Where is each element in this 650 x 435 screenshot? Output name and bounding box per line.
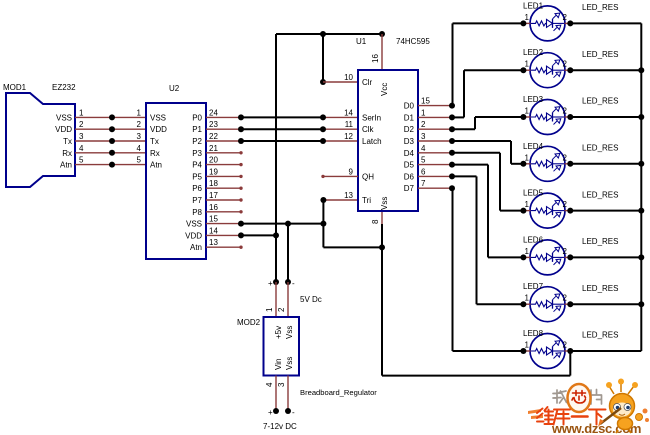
svg-text:LED2: LED2 — [523, 48, 544, 57]
svg-text:Atn: Atn — [150, 161, 162, 170]
IC U2 body — [146, 84, 206, 259]
svg-text:2: 2 — [563, 107, 568, 116]
svg-text:4: 4 — [137, 144, 142, 153]
U2 left pin name Atn — [150, 161, 162, 170]
svg-text:3: 3 — [79, 132, 84, 141]
svg-text:Tx: Tx — [150, 137, 159, 146]
svg-text:1: 1 — [525, 294, 530, 303]
wire LED4 to cathode bus — [570, 163, 641, 165]
node 7-12v input - — [285, 408, 295, 417]
svg-text:5: 5 — [79, 156, 84, 165]
wire MOD1 pin 4 to U2 pin 4 (Rx) — [75, 144, 146, 153]
wire P0 to U1 SerIn — [238, 114, 358, 120]
svg-text:Tri: Tri — [362, 196, 371, 205]
svg-text:D3: D3 — [404, 137, 415, 146]
svg-text:SerIn: SerIn — [362, 113, 381, 122]
svg-text:D4: D4 — [404, 149, 415, 158]
U2 left pin name Tx — [150, 137, 159, 146]
wire P2 to U1 Latch — [238, 138, 358, 144]
svg-text:P3: P3 — [192, 149, 202, 158]
svg-text:4: 4 — [421, 144, 426, 153]
svg-text:16: 16 — [371, 54, 380, 63]
open pin end dot Atn — [239, 246, 242, 249]
MOD1 pin name Tx — [63, 137, 72, 146]
svg-text:Clk: Clk — [362, 125, 375, 134]
LED5 (LED_RES) symbol — [530, 193, 565, 228]
LED7 pin 2 — [563, 294, 574, 308]
stub MOD2 pin 2 (Vss) — [287, 282, 289, 317]
svg-text:3: 3 — [137, 132, 142, 141]
junction dot on Atn wire — [109, 162, 115, 168]
svg-text:P0: P0 — [192, 113, 202, 122]
svg-text:Vss: Vss — [285, 357, 294, 370]
U1 right pin 4 (D4) stub — [404, 144, 455, 158]
svg-text:1: 1 — [525, 13, 530, 22]
svg-text:LED1: LED1 — [523, 1, 544, 10]
svg-text:74HC595: 74HC595 — [396, 37, 430, 46]
MOD2 pin number 3 (rotated) — [277, 382, 286, 387]
wire +5V vertical rail x=276 — [275, 34, 277, 282]
svg-text:7-12v DC: 7-12v DC — [263, 422, 297, 431]
stub U1 Vcc pin 16 — [381, 34, 383, 70]
MOD2 pin number 4 (rotated) — [265, 382, 274, 387]
U1 right pin 15 (D0) stub — [404, 97, 455, 111]
wire D2 to LED3 — [452, 117, 523, 129]
U1 Vss label (rotated) — [380, 197, 389, 210]
svg-text:P6: P6 — [192, 184, 202, 193]
LED6 labels — [523, 235, 618, 246]
svg-text:VDD: VDD — [150, 125, 167, 134]
svg-text:5: 5 — [137, 156, 142, 165]
open pin end dot P5 — [239, 175, 242, 178]
MOD2 pin name Vin (rotated) — [274, 359, 283, 370]
wire LED cathode bus vertical — [638, 23, 644, 351]
LED2 (LED_RES) symbol — [530, 53, 565, 88]
U2 left pin name Rx — [150, 149, 160, 158]
U1 right pin 2 (D2) stub — [404, 120, 455, 134]
wire D1 to LED2 — [452, 70, 523, 117]
LED3 pin 2 — [563, 107, 574, 121]
svg-text:15: 15 — [421, 97, 430, 106]
connector MOD1 EZ232 body — [3, 83, 76, 187]
svg-text:Atn: Atn — [60, 161, 72, 170]
svg-text:LED7: LED7 — [523, 282, 544, 291]
wire D5 to LED6 — [452, 165, 523, 258]
U1 left pin 13 (Tri) name/number — [344, 191, 371, 205]
label Breadboard_Regulator — [300, 388, 377, 397]
svg-text:2: 2 — [79, 120, 84, 129]
U2 right pin 20 (P4) stub — [192, 156, 241, 170]
svg-text:VSS: VSS — [186, 220, 202, 229]
svg-text:LED_RES: LED_RES — [582, 3, 618, 12]
svg-text:4: 4 — [79, 144, 84, 153]
U1 right pin 6 (D6) stub — [404, 167, 455, 181]
LED1 labels — [523, 1, 618, 12]
LED8 pin 2 — [563, 341, 574, 355]
svg-text:3: 3 — [421, 132, 426, 141]
wire D3 to LED4 — [452, 141, 523, 164]
wire LED3 to cathode bus — [570, 116, 641, 118]
U2 right pin 17 (P7) stub — [192, 191, 241, 205]
stub U1 Tri pin 13 — [320, 197, 358, 203]
svg-text:VDD: VDD — [55, 125, 72, 134]
stub MOD2 pin 4 (Vin) — [275, 376, 277, 412]
label 5V Dc — [300, 295, 322, 304]
U2 right pin 24 (P0) stub — [192, 108, 241, 122]
regulator MOD2 body — [237, 317, 299, 376]
LED8 labels — [523, 329, 618, 340]
junction dot on VSS wire — [109, 114, 115, 120]
junction dot on VDD wire — [109, 126, 115, 132]
svg-text:8: 8 — [371, 219, 380, 224]
MOD1 pin name VSS — [56, 113, 72, 122]
U1 right pin 5 (D5) stub — [404, 156, 455, 170]
svg-text:2: 2 — [563, 60, 568, 69]
wire LED5 to cathode bus — [570, 210, 641, 212]
U1 left pin 10 (Clr) name/number — [344, 73, 372, 87]
MOD2 pin name Vss bottom (rotated) — [285, 357, 294, 370]
MOD2 pin name +5v (rotated) — [274, 326, 283, 339]
U1 right pin 3 (D3) stub — [404, 132, 455, 146]
svg-text:14: 14 — [209, 226, 218, 235]
svg-text:QH: QH — [362, 172, 374, 181]
svg-text:EZ232: EZ232 — [52, 83, 76, 92]
svg-text:P5: P5 — [192, 172, 202, 181]
svg-text:14: 14 — [344, 108, 353, 117]
MOD2 pin name Vss top (rotated) — [285, 326, 294, 339]
label 7-12v DC — [263, 422, 297, 431]
U2 right pin 22 (P2) stub — [192, 132, 241, 146]
svg-text:Vin: Vin — [274, 359, 283, 370]
U2 right pin 21 (P3) stub — [192, 144, 241, 158]
U2 right pin 16 (P8) stub — [192, 203, 241, 217]
wire D4 to LED5 — [452, 153, 523, 211]
svg-text:LED3: LED3 — [523, 95, 544, 104]
stub MOD2 pin 3 (Vss) — [287, 376, 289, 412]
wire LED6 to cathode bus — [570, 256, 641, 258]
IC U1 74HC595 body — [356, 37, 430, 211]
svg-text:Rx: Rx — [62, 149, 72, 158]
svg-text:Vss: Vss — [380, 197, 389, 210]
U1 Vcc label (rotated) — [380, 83, 389, 96]
LED7 labels — [523, 282, 618, 293]
svg-text:5V Dc: 5V Dc — [300, 295, 322, 304]
svg-text:Breadboard_Regulator: Breadboard_Regulator — [300, 388, 377, 397]
svg-text:LED_RES: LED_RES — [582, 331, 618, 340]
LED8 (LED_RES) symbol — [530, 334, 565, 369]
LED7 pin 1 — [520, 294, 530, 308]
svg-text:D7: D7 — [404, 184, 415, 193]
wire LED1 to cathode bus — [570, 22, 641, 24]
svg-text:P2: P2 — [192, 137, 202, 146]
LED3 (LED_RES) symbol — [530, 100, 565, 135]
U2 left pin name VDD — [150, 125, 167, 134]
U1 left pin 14 (SerIn) name/number — [344, 108, 381, 122]
svg-text:D1: D1 — [404, 113, 415, 122]
U2 right pin 14 (VDD) stub — [185, 226, 241, 240]
svg-text:1: 1 — [525, 341, 530, 350]
svg-text:VSS: VSS — [150, 113, 166, 122]
watermark (site logo) — [528, 379, 649, 435]
svg-text:LED_RES: LED_RES — [582, 237, 618, 246]
MOD2 pin number 2 (rotated) — [277, 307, 286, 312]
svg-text:1: 1 — [525, 200, 530, 209]
LED2 pin 1 — [520, 60, 530, 74]
stub MOD2 pin 1 (+5v) — [275, 282, 277, 317]
svg-text:2: 2 — [277, 307, 286, 312]
svg-text:2: 2 — [563, 153, 568, 162]
svg-text:Vcc: Vcc — [380, 83, 389, 96]
wire LED7 to cathode bus — [570, 303, 641, 305]
svg-text:D6: D6 — [404, 172, 415, 181]
svg-text:D0: D0 — [404, 102, 415, 111]
svg-text:10: 10 — [344, 73, 353, 82]
wire MOD1 pin 1 to U2 pin 1 (VSS) — [75, 108, 146, 117]
svg-text:20: 20 — [209, 156, 218, 165]
wire D7 to LED8 — [453, 188, 524, 351]
stub U1 Vss pin 8 — [381, 211, 383, 224]
LED4 pin 2 — [563, 153, 574, 167]
wire D0 to LED1 — [453, 23, 524, 105]
svg-text:P7: P7 — [192, 196, 202, 205]
LED8 pin 1 — [520, 341, 530, 355]
open pin end dot P3 — [239, 151, 242, 154]
wire VSS vertical to regulator x=288 — [287, 224, 289, 282]
svg-text:5: 5 — [421, 156, 426, 165]
wire VSS bottom return to LED8 — [382, 351, 570, 376]
svg-text:23: 23 — [209, 120, 218, 129]
svg-text:LED5: LED5 — [523, 189, 544, 198]
svg-text:22: 22 — [209, 132, 218, 141]
wire MOD1 pin 3 to U2 pin 3 (Tx) — [75, 132, 146, 141]
U1 left pin 9 (QH) name/number — [349, 167, 375, 181]
U2 right pin 13 (Atn) stub — [190, 238, 241, 252]
LED4 labels — [523, 142, 618, 153]
U1 right pin 1 (D1) stub — [404, 108, 455, 122]
LED5 pin 1 — [520, 200, 530, 214]
svg-text:Latch: Latch — [362, 137, 382, 146]
svg-text:12: 12 — [344, 132, 353, 141]
svg-text:11: 11 — [345, 120, 354, 129]
svg-text:P8: P8 — [192, 208, 202, 217]
MOD1 pin name VDD — [55, 125, 72, 134]
svg-text:-: - — [292, 279, 295, 288]
wire U1 Vss pin 8 vertical down — [381, 224, 383, 376]
open pin end dot P4 — [239, 163, 242, 166]
wire D6 to LED7 — [452, 176, 523, 304]
U2 right pin 18 (P6) stub — [192, 179, 241, 193]
node VSS to regulator, junction dot — [285, 279, 295, 288]
svg-text:+5v: +5v — [274, 326, 283, 339]
svg-text:19: 19 — [209, 167, 218, 176]
svg-text:2: 2 — [563, 341, 568, 350]
MOD2 pin number 1 (rotated) — [265, 307, 274, 312]
LED4 (LED_RES) symbol — [530, 146, 565, 181]
svg-text:D5: D5 — [404, 161, 415, 170]
MOD1 pin name Atn — [60, 161, 72, 170]
svg-text:-: - — [292, 408, 295, 417]
LED2 labels — [523, 48, 618, 59]
U1 pin 16 number (rotated) — [371, 54, 380, 63]
junction dot on Rx wire — [109, 150, 115, 156]
svg-text:P4: P4 — [192, 161, 202, 170]
svg-text:6: 6 — [421, 167, 426, 176]
U1 pin 8 number (rotated) — [371, 219, 380, 224]
stub U1 QH pin 9 — [321, 175, 358, 178]
svg-text:2: 2 — [563, 13, 568, 22]
svg-text:3: 3 — [277, 382, 286, 387]
U2 right pin 15 (VSS) stub — [186, 215, 241, 229]
svg-text:Atn: Atn — [190, 243, 202, 252]
LED4 pin 1 — [520, 153, 530, 167]
svg-text:P1: P1 — [192, 125, 202, 134]
svg-text:2: 2 — [137, 120, 142, 129]
wire P1 to U1 Clk — [238, 126, 358, 132]
LED1 pin 1 — [520, 13, 530, 27]
svg-text:LED6: LED6 — [523, 235, 544, 244]
svg-text:1: 1 — [421, 108, 426, 117]
wire Tri to VSS net vertical — [322, 200, 324, 247]
svg-text:Vss: Vss — [285, 326, 294, 339]
svg-text:9: 9 — [349, 167, 354, 176]
node 7-12v input + — [268, 408, 279, 417]
wire U1 Clr branch vertical — [320, 34, 326, 85]
LED5 labels — [523, 189, 618, 200]
svg-text:16: 16 — [209, 203, 218, 212]
open pin end dot P8 — [239, 210, 242, 213]
MOD1 pin name Rx — [62, 149, 72, 158]
U1 right pin 7 (D7) stub — [404, 179, 455, 193]
svg-text:21: 21 — [209, 144, 218, 153]
svg-text:Rx: Rx — [150, 149, 160, 158]
LED3 labels — [523, 95, 618, 106]
LED6 (LED_RES) symbol — [530, 240, 565, 275]
svg-text:LED_RES: LED_RES — [582, 190, 618, 199]
LED1 (LED_RES) symbol — [530, 6, 565, 41]
wire MOD1 pin 5 to U2 pin 5 (Atn) — [75, 156, 146, 165]
U1 left pin 12 (Latch) name/number — [344, 132, 381, 146]
svg-text:1: 1 — [525, 107, 530, 116]
LED7 (LED_RES) symbol — [530, 287, 565, 322]
open pin end dot P6 — [239, 187, 242, 190]
svg-text:LED_RES: LED_RES — [582, 284, 618, 293]
svg-text:LED_RES: LED_RES — [582, 50, 618, 59]
svg-text:1: 1 — [137, 108, 142, 117]
stub U1 Clr pin 10 — [323, 81, 358, 83]
svg-text:1: 1 — [79, 108, 84, 117]
wire U2 VDD pin 14 to +5V vertical — [238, 232, 279, 238]
svg-text:Tx: Tx — [63, 137, 72, 146]
svg-text:U2: U2 — [169, 84, 180, 93]
junction dot on Tx wire — [109, 138, 115, 144]
svg-text:4: 4 — [265, 382, 274, 387]
svg-text:VDD: VDD — [185, 231, 202, 240]
svg-text:1: 1 — [265, 307, 274, 312]
open pin end dot P7 — [239, 198, 242, 201]
svg-text:LED4: LED4 — [523, 142, 544, 151]
svg-text:1: 1 — [525, 247, 530, 256]
svg-text:LED_RES: LED_RES — [582, 144, 618, 153]
LED2 pin 2 — [563, 60, 574, 74]
LED3 pin 1 — [520, 107, 530, 121]
wire VSS to U1 Vss pin 8 — [323, 244, 385, 250]
LED5 pin 2 — [563, 200, 574, 214]
LED6 pin 2 — [563, 247, 574, 261]
node +5V to regulator, junction dot — [268, 279, 279, 288]
U1 left pin 11 (Clk) name/number — [345, 120, 375, 134]
svg-text:15: 15 — [209, 215, 218, 224]
LED6 pin 1 — [520, 247, 530, 261]
svg-text:17: 17 — [209, 191, 218, 200]
svg-text:2: 2 — [563, 247, 568, 256]
svg-text:LED8: LED8 — [523, 329, 544, 338]
svg-text:MOD2: MOD2 — [237, 318, 261, 327]
wire LED8 to cathode bus — [570, 350, 641, 352]
svg-text:1: 1 — [525, 60, 530, 69]
svg-text:VSS: VSS — [56, 113, 72, 122]
svg-text:U1: U1 — [356, 37, 367, 46]
svg-text:LED_RES: LED_RES — [582, 97, 618, 106]
svg-text:13: 13 — [209, 238, 218, 247]
LED1 pin 2 — [563, 13, 574, 27]
wire LED2 to cathode bus — [570, 69, 641, 71]
U2 left pin name VSS — [150, 113, 166, 122]
svg-text:D2: D2 — [404, 125, 415, 134]
wire +5V top rail to U1 Vcc — [276, 31, 385, 37]
wire MOD1 pin 2 to U2 pin 2 (VDD) — [75, 120, 146, 129]
svg-text:2: 2 — [563, 200, 568, 209]
svg-text:13: 13 — [344, 191, 353, 200]
svg-text:2: 2 — [563, 294, 568, 303]
svg-text:Clr: Clr — [362, 78, 373, 87]
U2 right pin 19 (P5) stub — [192, 167, 241, 181]
svg-text:1: 1 — [525, 153, 530, 162]
svg-text:MOD1: MOD1 — [3, 83, 27, 92]
svg-text:7: 7 — [421, 179, 426, 188]
svg-text:24: 24 — [209, 108, 218, 117]
svg-text:2: 2 — [421, 120, 426, 129]
svg-text:18: 18 — [209, 179, 218, 188]
U2 right pin 23 (P1) stub — [192, 120, 241, 134]
wire U2 VSS pin 15 net — [238, 221, 326, 227]
svg-text:+: + — [268, 279, 273, 288]
svg-text:+: + — [268, 408, 273, 417]
